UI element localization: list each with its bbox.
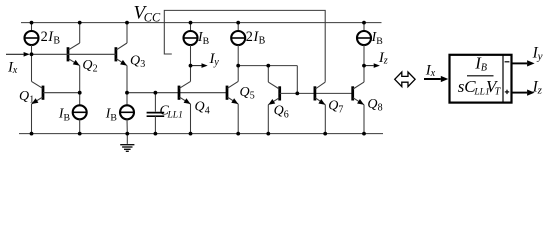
svg-text:5: 5 [250,90,255,101]
svg-text:Q: Q [240,85,250,100]
svg-text:Q: Q [130,54,140,69]
svg-text:2: 2 [246,29,253,45]
svg-text:B: B [259,36,266,47]
svg-text:x: x [430,68,436,79]
svg-text:Q: Q [82,58,92,73]
svg-text:6: 6 [284,109,289,120]
svg-text:B: B [376,36,383,47]
svg-text:Q: Q [274,104,284,119]
svg-text:Q: Q [195,100,205,115]
svg-text:x: x [12,65,18,76]
svg-text:2: 2 [41,29,48,45]
svg-text:4: 4 [205,105,210,116]
svg-text:2: 2 [93,64,98,75]
svg-text:Q: Q [19,89,29,104]
svg-text:3: 3 [140,59,145,70]
svg-text:LL1: LL1 [167,110,183,120]
svg-text:B: B [203,36,210,47]
svg-text:Q: Q [367,97,377,112]
svg-text:B: B [64,112,71,123]
svg-text:B: B [481,62,487,73]
svg-text:z: z [383,56,388,67]
svg-text:Q: Q [328,99,338,114]
svg-text:1: 1 [29,95,34,106]
svg-text:z: z [537,85,543,97]
svg-text:7: 7 [338,104,343,115]
svg-text:8: 8 [378,103,383,114]
svg-text:CC: CC [144,11,161,25]
svg-text:y: y [537,51,543,63]
svg-text:B: B [110,112,117,123]
svg-text:y: y [213,57,219,68]
svg-text:B: B [53,36,60,47]
